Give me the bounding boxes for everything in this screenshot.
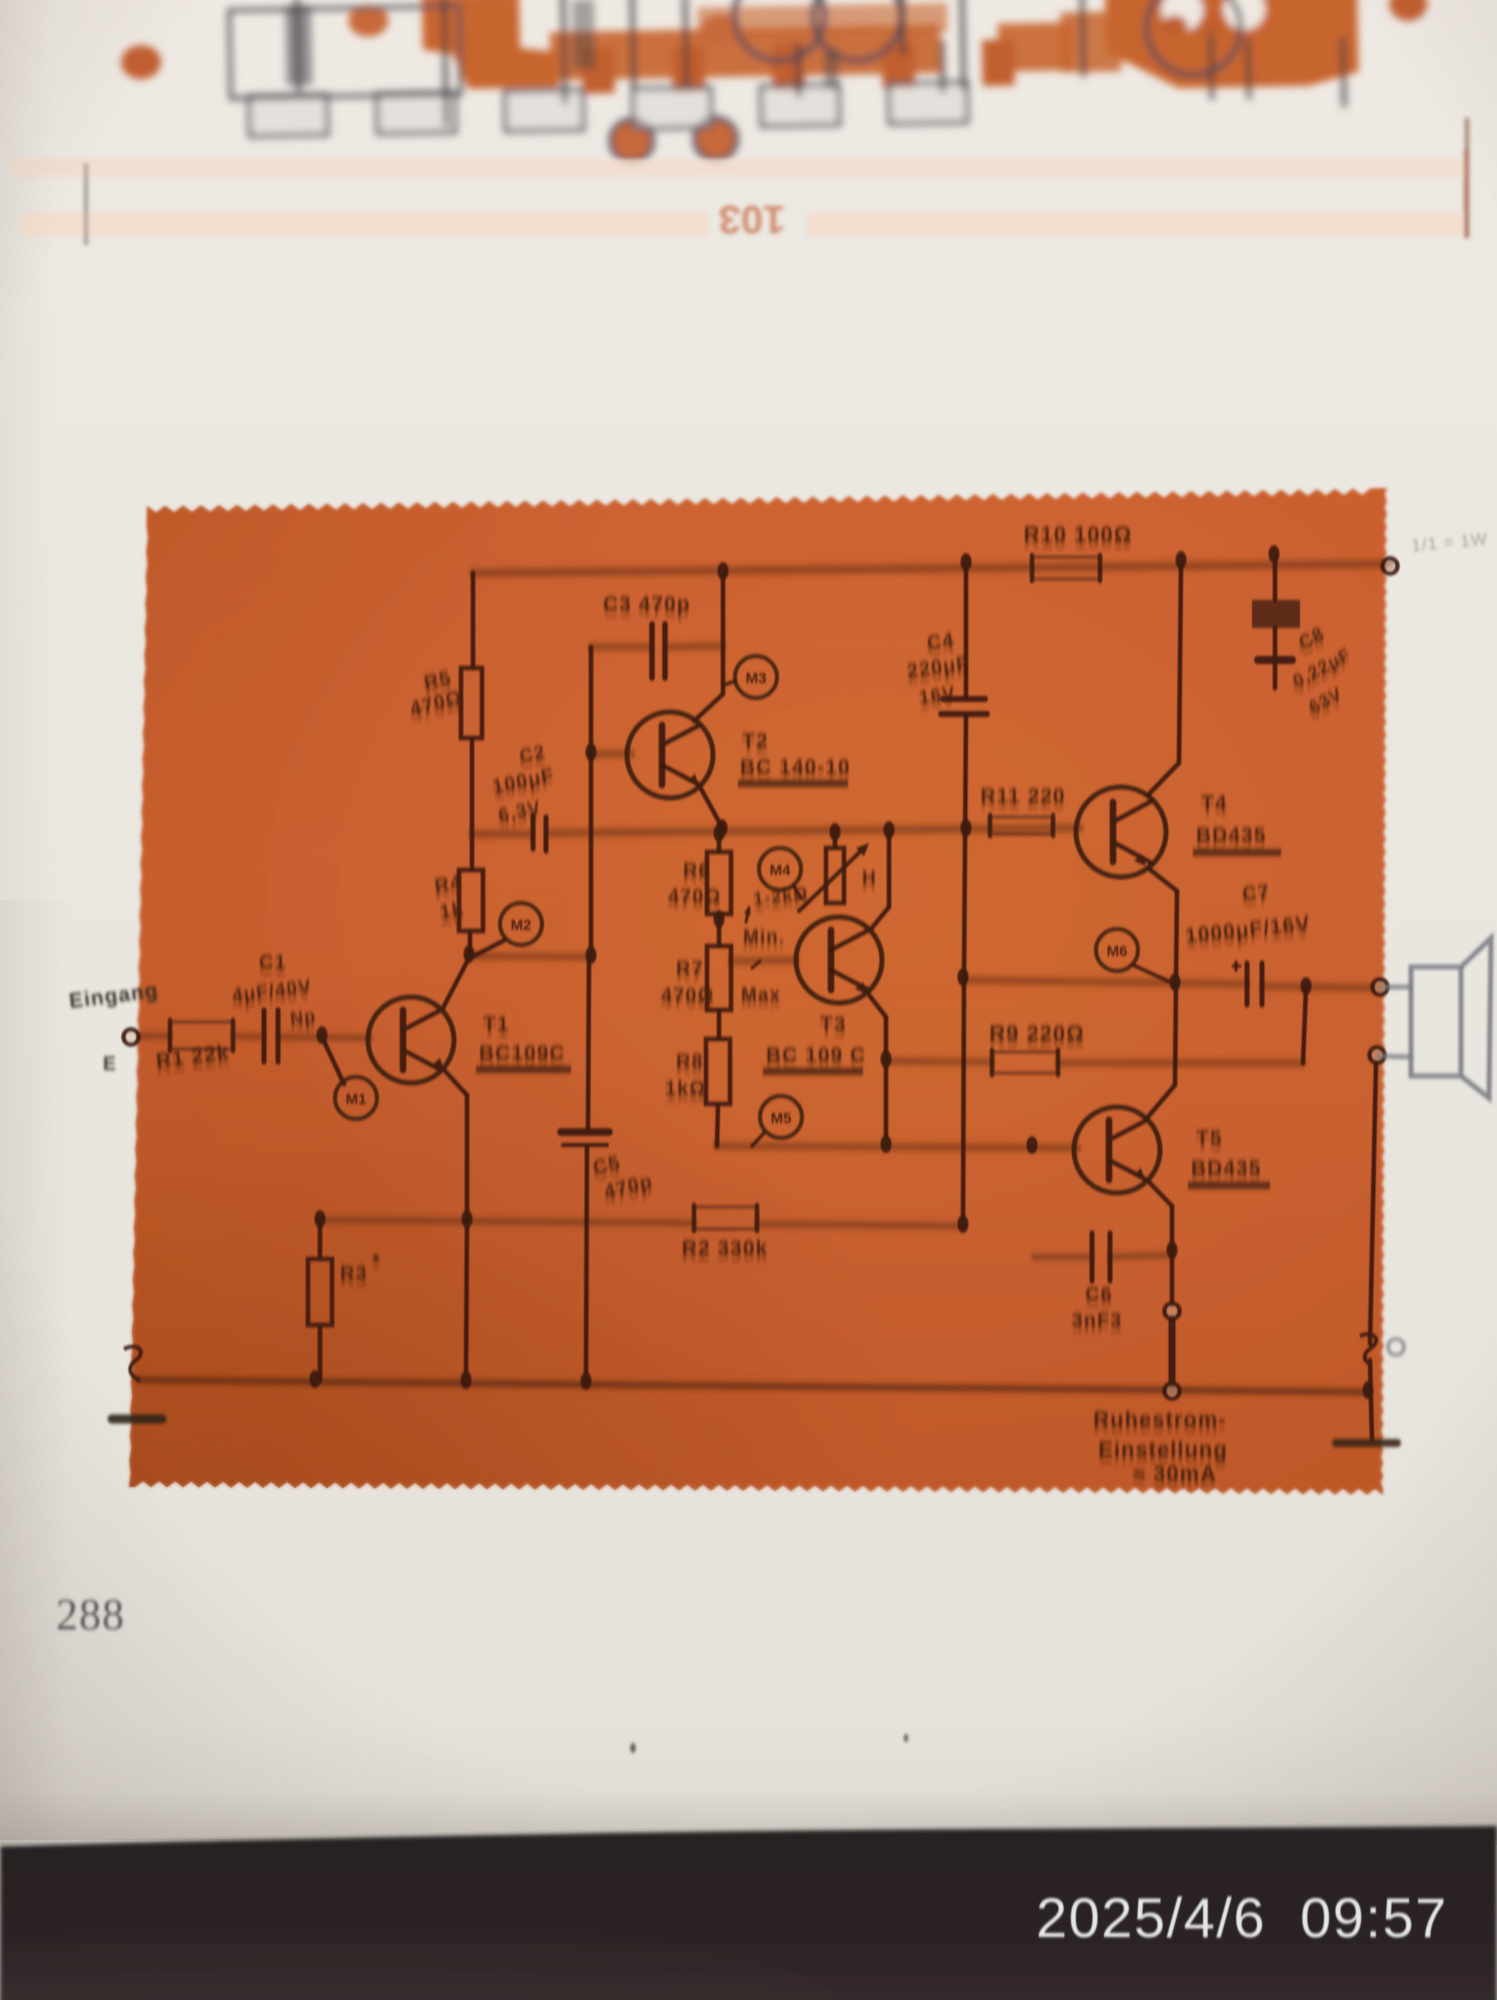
svg-text:2025/4/6 09:57: 2025/4/6 09:57	[1036, 1886, 1448, 1949]
